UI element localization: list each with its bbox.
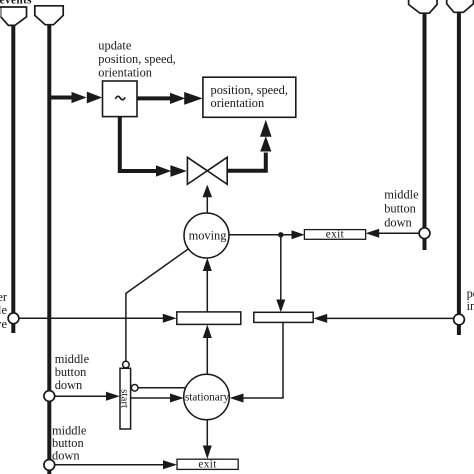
- label: middle button down (right): [384, 188, 419, 230]
- svg-text:middle: middle: [0, 303, 7, 317]
- label fragment: pointer (left edge, clipped): [0, 290, 8, 331]
- svg-text:down: down: [52, 449, 80, 463]
- update transition box with tilde: [103, 81, 138, 117]
- label fragment: pointer input (right edge, clipped): [467, 287, 474, 314]
- event receptor circle C2 on line 2: [44, 391, 55, 402]
- wire: event 4 to exit transition (right side): [366, 229, 425, 238]
- transition: exit (upper): [304, 228, 365, 240]
- thick arrow: update transition to position place: [137, 92, 202, 105]
- svg-text:orientation: orientation: [211, 96, 265, 110]
- svg-text:stationary: stationary: [185, 392, 230, 404]
- svg-text:move: move: [0, 317, 7, 331]
- small circle right of start transition: [131, 385, 138, 392]
- wire: moving place up to token-merge: [203, 185, 213, 216]
- svg-text:start: start: [119, 389, 131, 408]
- wire: event 3 into bottom exit transition: [49, 460, 177, 469]
- wire: event line from funnel 1: [11, 24, 15, 333]
- svg-text:moving: moving: [189, 228, 227, 242]
- wire: stationary place down into bottom exit transition: [203, 418, 212, 459]
- svg-text:down: down: [384, 216, 412, 230]
- junction dot: [278, 232, 283, 237]
- place: moving: [184, 213, 229, 258]
- svg-text:down: down: [55, 378, 83, 392]
- svg-text:button: button: [55, 365, 87, 379]
- start transition box: [119, 368, 131, 429]
- svg-text:position, speed,: position, speed,: [98, 52, 175, 66]
- thick arrow: update transition down and right to token-merge: [120, 117, 187, 177]
- place: stationary: [184, 374, 230, 420]
- svg-text:events: events: [0, 0, 32, 6]
- wire: event 2 into start transition: [49, 392, 120, 401]
- svg-text:update: update: [98, 38, 132, 52]
- thick arrow: token-merge right and up into position place: [227, 120, 272, 171]
- wire: start side circle to stationary place: [138, 387, 192, 389]
- svg-text:exit: exit: [326, 228, 345, 240]
- label: middle button down (left upper): [55, 352, 90, 392]
- wire: event line from funnel 3: [423, 11, 427, 250]
- wire: stationary place up into left sync bar: [203, 325, 212, 376]
- transition: exit (bottom): [177, 459, 238, 471]
- thick arrow: event line 2 to update transition: [49, 92, 102, 104]
- left sync bar transition: [177, 312, 241, 325]
- wire: event line from funnel 4: [457, 10, 461, 335]
- event receptor circle C3 on line 2 (bottom): [44, 460, 55, 471]
- wire: diagonal from moving place to start transition circle: [126, 242, 198, 361]
- place: position, speed, orientation: [203, 77, 296, 117]
- event receptor circle C4 on line 3: [419, 228, 430, 239]
- event receptor circle C1 on line 1: [8, 313, 19, 324]
- label: middle button down (left lower): [52, 424, 87, 463]
- funnel event source 1: [0, 7, 27, 25]
- label: events (clipped at top): [0, 0, 32, 6]
- wire: event 5 to right sync bar: [313, 314, 459, 323]
- wire: event line from funnel 2: [47, 23, 51, 474]
- svg-text:position, speed,: position, speed,: [211, 83, 288, 97]
- token-merge bowtie symbol: [187, 157, 227, 184]
- svg-text:middle: middle: [55, 352, 90, 366]
- funnel event source 2: [35, 6, 63, 25]
- wire: right sync bar down and left into stationary place: [230, 322, 284, 402]
- small circle above start transition: [123, 361, 130, 368]
- svg-text:middle: middle: [384, 188, 419, 202]
- label: update position speed orientation: [98, 38, 175, 79]
- wire: left sync bar up into moving place: [203, 258, 212, 312]
- svg-text:exit: exit: [198, 459, 217, 471]
- wire: start transition to stationary place: [131, 394, 184, 403]
- wire: event 1 to left sync bar: [14, 314, 177, 323]
- wire: moving place to exit transition and junction: [224, 230, 305, 239]
- svg-text:button: button: [384, 202, 416, 216]
- funnel event source 4 (clipped at top): [447, 0, 474, 12]
- funnel event source 3 (clipped at top): [409, 0, 437, 13]
- wire: junction down to right sync bar: [276, 235, 285, 313]
- right sync bar transition: [254, 312, 313, 322]
- event receptor circle C5 on line 4: [454, 314, 465, 325]
- svg-text:orientation: orientation: [98, 65, 152, 79]
- svg-text:in: in: [467, 299, 474, 313]
